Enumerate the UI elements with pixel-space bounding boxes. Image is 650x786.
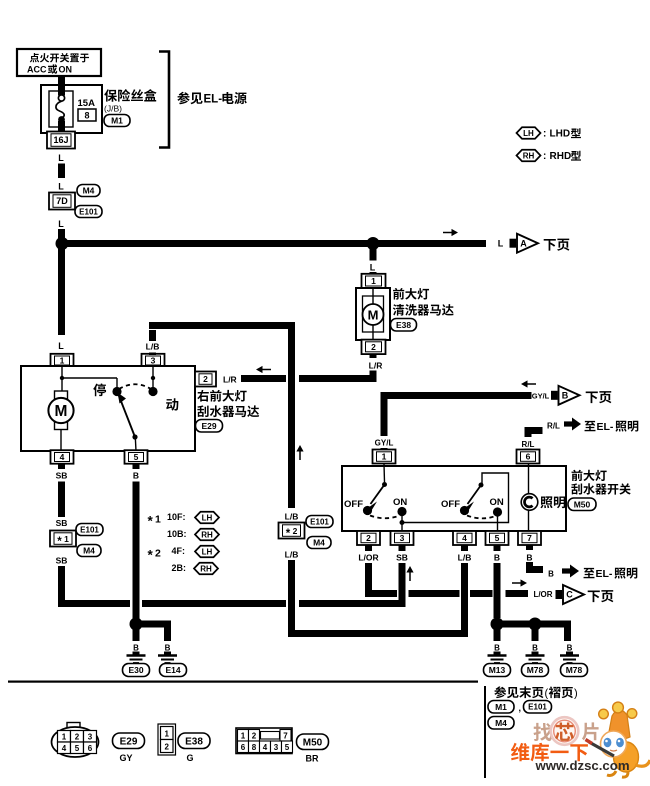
svg-text:EL-: EL- <box>204 94 223 106</box>
停 label <box>93 383 106 396</box>
svg-text:2: 2 <box>366 533 371 543</box>
svg-text:E101: E101 <box>310 517 329 526</box>
svg-text:L: L <box>58 153 64 163</box>
svg-text:RH: RH <box>523 151 535 160</box>
svg-text:3: 3 <box>274 743 279 752</box>
right front headlamp wiper motor E29 box <box>21 366 195 451</box>
svg-text:2: 2 <box>75 733 80 742</box>
svg-text:L: L <box>58 182 64 192</box>
M50 pin 6 <box>517 450 540 464</box>
svg-text:L/B: L/B <box>285 512 299 522</box>
svg-text:3: 3 <box>151 356 156 366</box>
M50 pin 5 <box>486 531 509 545</box>
L/B label above pin 3 <box>146 342 160 352</box>
svg-text:L: L <box>58 341 64 351</box>
svg-text:GY/L: GY/L <box>532 392 550 401</box>
see last page note 参见末页(褶页) <box>484 686 578 778</box>
svg-text:M: M <box>55 403 68 420</box>
svg-text:L/R: L/R <box>223 375 237 385</box>
M50 pin 2 <box>357 531 380 545</box>
svg-text:ON: ON <box>490 497 504 508</box>
fat arrow to EL-照明 (B) <box>562 565 637 581</box>
svg-text:L/B: L/B <box>146 342 160 352</box>
ground E14 <box>158 644 187 677</box>
ground M78 <box>522 644 549 677</box>
svg-text:L: L <box>58 219 64 229</box>
connector 16J <box>47 132 75 149</box>
off-page triangle A 下页 <box>498 234 570 253</box>
svg-text:M50: M50 <box>303 737 323 748</box>
svg-text:5: 5 <box>75 744 80 753</box>
svg-text:E101: E101 <box>79 207 98 216</box>
svg-text:3: 3 <box>88 733 93 742</box>
svg-text:7: 7 <box>527 533 532 543</box>
SB up arrow <box>406 566 413 581</box>
svg-text:L/OR: L/OR <box>358 553 378 563</box>
wire L bus to E29 pin 1 <box>58 247 65 351</box>
svg-text:5: 5 <box>134 452 139 462</box>
wire L/R <box>241 371 377 383</box>
fuse 15A 8 (fuse box) <box>41 85 102 133</box>
legend LH LHD型 <box>517 127 581 139</box>
svg-text:6: 6 <box>241 743 246 752</box>
legend connector M50 BR <box>236 728 329 764</box>
E29 pin 5 <box>125 450 148 464</box>
svg-text:M4: M4 <box>83 546 95 556</box>
svg-text:B: B <box>133 644 139 653</box>
M50 pin 3 <box>391 531 414 545</box>
svg-text:M4: M4 <box>313 538 325 548</box>
legend connector E38 G <box>158 724 210 763</box>
svg-text:M: M <box>368 307 379 322</box>
svg-text:3: 3 <box>400 533 405 543</box>
svg-text:SB: SB <box>56 556 68 566</box>
svg-text:SB: SB <box>56 471 68 481</box>
svg-text:2: 2 <box>203 374 208 384</box>
svg-text:E101: E101 <box>528 703 547 712</box>
E38 labels 前大灯 清洗器马达 <box>391 288 454 331</box>
svg-text:15A: 15A <box>78 98 96 109</box>
svg-text:4: 4 <box>462 533 467 543</box>
svg-text:B: B <box>562 391 569 401</box>
svg-text:*: * <box>57 536 62 548</box>
svg-text:,: , <box>519 703 522 713</box>
svg-text:M1: M1 <box>495 702 507 712</box>
wire B E29 pin5 to ground <box>133 464 172 641</box>
ground M13 <box>484 644 511 677</box>
svg-text:1: 1 <box>382 452 387 462</box>
wire B M50 pin5 to grounds <box>494 545 572 641</box>
wire L below 16J <box>58 153 65 192</box>
junction node B <box>130 618 143 631</box>
wire SB E29 pin4 to M50 pin3 <box>56 464 68 528</box>
L/R arrow left <box>256 366 271 373</box>
svg-text:2B:: 2B: <box>172 563 187 573</box>
svg-text:M78: M78 <box>527 665 544 675</box>
svg-text:4: 4 <box>263 743 268 752</box>
svg-text:5: 5 <box>495 533 500 543</box>
M50 switch 1 (washer) <box>344 464 407 530</box>
svg-text:GY/L: GY/L <box>375 439 394 448</box>
svg-text:4: 4 <box>62 744 67 753</box>
svg-text:2: 2 <box>293 526 298 536</box>
GY/L arrow left <box>521 380 536 387</box>
off-page triangle B 下页 <box>532 386 612 405</box>
E29 internal park switch <box>60 367 158 451</box>
svg-text:2: 2 <box>155 548 161 560</box>
wire L/OR to page C <box>365 545 553 599</box>
svg-text:B: B <box>548 570 554 579</box>
svg-text:E29: E29 <box>201 421 216 431</box>
svg-text:A: A <box>520 238 527 248</box>
connector *1 with E101 M4 <box>50 524 103 557</box>
svg-text:*: * <box>286 528 291 540</box>
svg-text:BR: BR <box>306 754 319 764</box>
M50 pin 4 <box>453 531 476 545</box>
svg-text:ON: ON <box>393 497 407 508</box>
wire GY/L to page B <box>375 392 532 451</box>
wire SB below *1 <box>56 545 406 607</box>
ground E30 <box>123 644 150 677</box>
wire ignition to fuse <box>58 76 65 86</box>
svg-text:GY: GY <box>119 753 132 763</box>
svg-text:LH: LH <box>202 513 213 522</box>
svg-text:(: ( <box>545 688 549 700</box>
svg-text:B: B <box>532 644 538 653</box>
wire R/L to EL-lighting <box>522 422 561 452</box>
svg-text:C: C <box>566 590 573 600</box>
M50 pin 1 <box>373 450 396 464</box>
svg-text:1: 1 <box>62 733 67 742</box>
svg-text:1: 1 <box>64 534 69 544</box>
svg-text::: : <box>543 151 546 162</box>
legend RH RHD型 <box>517 150 581 162</box>
svg-text:5: 5 <box>285 743 290 752</box>
svg-text:1: 1 <box>155 514 161 526</box>
svg-text:10F:: 10F: <box>167 512 186 522</box>
svg-text:2: 2 <box>371 342 376 352</box>
main bus wire L <box>59 240 486 247</box>
svg-text:): ) <box>574 688 578 700</box>
svg-text:B: B <box>494 644 500 653</box>
svg-text:1: 1 <box>241 732 246 741</box>
junction node washer branch <box>367 237 380 250</box>
headlamp washer motor E38 <box>356 288 390 340</box>
svg-text:RH: RH <box>200 564 212 573</box>
svg-text:SB: SB <box>396 553 408 563</box>
动 label <box>166 398 178 410</box>
E29 pin 4 <box>51 450 74 464</box>
wire B M50 pin7 to EL-lighting <box>526 545 554 579</box>
svg-text:LHD: LHD <box>550 129 571 140</box>
L/OR arrow right <box>512 579 527 586</box>
E29 internal motor M <box>48 367 73 450</box>
svg-text:E101: E101 <box>80 525 99 534</box>
svg-text:E30: E30 <box>128 665 143 675</box>
M50 pin labels <box>358 553 532 563</box>
ground M78 right <box>560 644 588 677</box>
svg-text:M50: M50 <box>574 499 591 509</box>
E29 labels 右前大灯 刮水器马达 <box>196 390 260 432</box>
svg-text:E29: E29 <box>120 736 138 747</box>
svg-text:16J: 16J <box>53 135 68 145</box>
svg-text:8: 8 <box>84 110 89 120</box>
svg-text::: : <box>543 129 546 140</box>
svg-text:E14: E14 <box>165 665 180 675</box>
svg-text:ACC: ACC <box>27 65 47 75</box>
M50 internal link wire <box>402 473 509 523</box>
svg-text:L/OR: L/OR <box>533 590 552 599</box>
legend connector E29 GY <box>52 723 145 764</box>
svg-text:LH: LH <box>202 547 213 556</box>
svg-text:7: 7 <box>283 732 288 741</box>
svg-text:EL-: EL- <box>596 568 613 580</box>
headlamp wiper switch M50 box <box>342 466 566 531</box>
E29 pin 1 <box>51 354 74 368</box>
svg-text:G: G <box>186 753 193 763</box>
svg-text:2: 2 <box>164 743 169 752</box>
M50 switch 2 (wiper) <box>441 483 504 531</box>
svg-text:E38: E38 <box>396 320 411 330</box>
connector *2 with E101 M4 <box>279 516 334 560</box>
fat arrow to EL-照明 <box>564 418 638 434</box>
svg-text:2: 2 <box>252 732 257 741</box>
M50 pin 7 <box>518 531 541 545</box>
svg-text:*: * <box>148 514 154 529</box>
svg-text:SB: SB <box>56 518 68 528</box>
svg-text:OFF: OFF <box>344 499 363 510</box>
svg-text:6: 6 <box>526 452 531 462</box>
svg-text:L: L <box>370 263 376 273</box>
note *1 10F LH / 10B RH ; *2 4F LH / 2B RH <box>148 512 220 575</box>
M50 labels 前大灯 刮水器开关 <box>568 470 631 511</box>
svg-text:M13: M13 <box>489 665 506 675</box>
E38 pin 1 <box>362 274 386 289</box>
svg-text:LH: LH <box>523 129 534 138</box>
E29 pin 3 <box>142 354 165 368</box>
E38 pin 2 <box>362 340 386 355</box>
svg-text:R/L: R/L <box>547 422 560 431</box>
svg-text:1: 1 <box>60 356 65 366</box>
wire L bus to E38 <box>370 247 377 274</box>
wire L/B E29 pin3 to M50 pin4 <box>149 322 468 637</box>
wire L to main bus <box>58 219 65 241</box>
E29 pin 2 (right side) L/R <box>195 372 237 387</box>
svg-text:B: B <box>494 553 500 563</box>
svg-text:B: B <box>165 644 171 653</box>
svg-text:L: L <box>498 239 504 249</box>
svg-text:1: 1 <box>371 276 376 286</box>
connector 7D with M4 E101 <box>49 185 102 218</box>
svg-text:4F:: 4F: <box>172 546 186 556</box>
bracket see EL-power 参见EL-电源 <box>159 52 247 148</box>
off-page triangle C 下页 <box>556 585 614 604</box>
svg-text:OFF: OFF <box>441 499 460 510</box>
svg-text:M4: M4 <box>83 186 95 196</box>
svg-text:10B:: 10B: <box>167 529 187 539</box>
junction node left <box>56 237 69 250</box>
svg-text:4: 4 <box>60 452 65 462</box>
svg-text:(J/B): (J/B) <box>104 104 122 114</box>
bus arrow right <box>443 229 458 236</box>
fuse box labels 保险丝盒 (J/B) M1 <box>104 89 157 126</box>
junction node B1 <box>491 618 504 631</box>
separator line <box>8 681 478 683</box>
svg-text:B: B <box>526 553 532 563</box>
watermark dzsc logo <box>511 702 650 777</box>
svg-text:B: B <box>567 644 573 653</box>
L/B up arrow <box>296 445 303 460</box>
svg-text:M4: M4 <box>495 718 507 728</box>
svg-text:L/B: L/B <box>285 550 299 560</box>
junction node B2 <box>529 618 542 631</box>
svg-text:1: 1 <box>164 730 169 739</box>
svg-text:B: B <box>133 471 139 481</box>
svg-text:ON: ON <box>59 65 73 75</box>
svg-text:www.dzsc.com: www.dzsc.com <box>535 758 630 773</box>
svg-text:RH: RH <box>201 530 213 539</box>
svg-text:L/R: L/R <box>369 361 383 371</box>
svg-text:*: * <box>148 548 154 563</box>
svg-text:6: 6 <box>88 744 93 753</box>
svg-text:M1: M1 <box>111 116 123 126</box>
wire L/R label <box>369 354 383 371</box>
M50 illumination lamp 照明 <box>521 464 565 531</box>
svg-text:7D: 7D <box>56 196 68 206</box>
svg-text:L/B: L/B <box>458 553 472 563</box>
svg-text:8: 8 <box>252 743 257 752</box>
svg-text:E38: E38 <box>185 736 203 747</box>
svg-text:R/L: R/L <box>522 440 535 449</box>
svg-text:EL-: EL- <box>597 421 614 433</box>
svg-text:M78: M78 <box>566 665 583 675</box>
svg-text:RHD: RHD <box>550 151 572 162</box>
ignition switch box <box>17 49 101 76</box>
